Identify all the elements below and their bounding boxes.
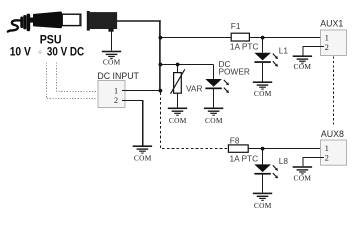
svg-text:1: 1 xyxy=(325,144,329,153)
svg-text:L8: L8 xyxy=(279,156,289,166)
svg-text:DC INPUT: DC INPUT xyxy=(97,71,139,81)
svg-text:COM: COM xyxy=(294,62,312,71)
svg-text:COM: COM xyxy=(294,173,312,182)
svg-text:F8: F8 xyxy=(230,136,240,146)
svg-text:POWER: POWER xyxy=(219,67,250,77)
svg-text:1A PTC: 1A PTC xyxy=(230,153,259,163)
svg-text:2: 2 xyxy=(114,96,118,105)
svg-text:1: 1 xyxy=(114,86,118,95)
svg-text:COM: COM xyxy=(134,154,152,163)
svg-text:30 V DC: 30 V DC xyxy=(47,45,85,58)
svg-text:2: 2 xyxy=(325,43,329,52)
svg-text:÷: ÷ xyxy=(38,48,42,57)
svg-text:COM: COM xyxy=(205,116,223,125)
svg-text:COM: COM xyxy=(254,201,272,210)
svg-text:F1: F1 xyxy=(231,21,241,31)
svg-text:2: 2 xyxy=(325,153,329,162)
svg-text:10 V: 10 V xyxy=(10,45,31,58)
svg-text:COM: COM xyxy=(103,57,121,66)
svg-text:L1: L1 xyxy=(279,45,289,55)
svg-text:VAR: VAR xyxy=(186,83,202,93)
svg-text:AUX8: AUX8 xyxy=(321,129,344,139)
svg-text:1A PTC: 1A PTC xyxy=(230,42,259,52)
svg-text:COM: COM xyxy=(254,89,272,98)
svg-text:1: 1 xyxy=(325,33,329,42)
svg-text:AUX1: AUX1 xyxy=(320,18,343,28)
svg-text:COM: COM xyxy=(169,116,187,125)
